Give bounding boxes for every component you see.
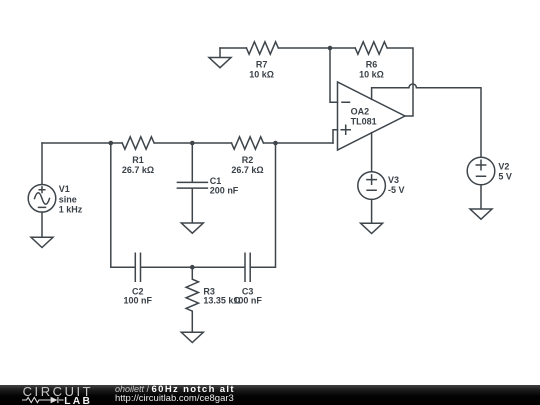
svg-text:OA2: OA2 bbox=[351, 107, 370, 117]
svg-text:26.7 kΩ: 26.7 kΩ bbox=[231, 165, 263, 175]
svg-text:TL081: TL081 bbox=[351, 116, 377, 126]
svg-text:R2: R2 bbox=[242, 155, 254, 165]
svg-text:10 kΩ: 10 kΩ bbox=[359, 69, 384, 79]
svg-text:5 V: 5 V bbox=[498, 171, 512, 181]
svg-text:100 nF: 100 nF bbox=[124, 296, 153, 306]
svg-text:1 kHz: 1 kHz bbox=[59, 204, 83, 214]
svg-text:13.35 kΩ: 13.35 kΩ bbox=[203, 296, 240, 306]
svg-text:V2: V2 bbox=[498, 161, 509, 171]
svg-text:C1: C1 bbox=[210, 176, 222, 186]
svg-text:LAB: LAB bbox=[64, 396, 92, 405]
svg-text:R1: R1 bbox=[132, 155, 144, 165]
svg-text:V3: V3 bbox=[388, 175, 399, 185]
svg-text:R7: R7 bbox=[256, 59, 268, 69]
svg-text:R6: R6 bbox=[366, 59, 378, 69]
svg-text:V1: V1 bbox=[59, 184, 70, 194]
svg-text:-5 V: -5 V bbox=[388, 185, 405, 195]
svg-text:sine: sine bbox=[59, 194, 77, 204]
svg-text:200 nF: 200 nF bbox=[210, 186, 239, 196]
svg-text:26.7 kΩ: 26.7 kΩ bbox=[122, 165, 154, 175]
svg-text:10 kΩ: 10 kΩ bbox=[249, 69, 274, 79]
